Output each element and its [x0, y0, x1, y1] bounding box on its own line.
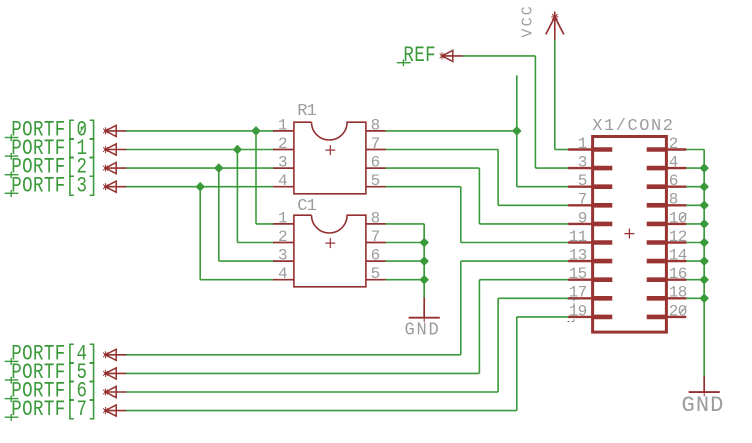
svg-text:7: 7 [371, 135, 381, 153]
svg-text:2: 2 [278, 228, 288, 246]
svg-text:GND: GND [405, 320, 441, 341]
svg-text:3: 3 [278, 154, 288, 172]
svg-text:8: 8 [371, 209, 381, 227]
svg-text:13: 13 [569, 247, 587, 265]
svg-text:REF: REF [403, 43, 436, 69]
svg-text:8: 8 [371, 116, 381, 134]
svg-text:4: 4 [278, 265, 288, 283]
svg-text:14: 14 [669, 247, 687, 265]
svg-text:9: 9 [578, 209, 587, 227]
svg-text:X1/CON2: X1/CON2 [592, 117, 674, 136]
svg-text:2: 2 [278, 135, 288, 153]
svg-text:5: 5 [371, 172, 381, 190]
svg-text:16: 16 [669, 265, 687, 283]
svg-text:1: 1 [278, 116, 288, 134]
svg-text:7: 7 [578, 191, 587, 209]
svg-text:7: 7 [371, 228, 381, 246]
svg-text:PORTF[3]: PORTF[3] [11, 173, 98, 199]
svg-text:PORTF[7]: PORTF[7] [11, 397, 98, 423]
svg-text:1: 1 [578, 135, 587, 153]
svg-text:3: 3 [578, 154, 587, 172]
svg-text:10: 10 [669, 209, 687, 227]
svg-text:2: 2 [669, 135, 678, 153]
svg-text:17: 17 [569, 284, 587, 302]
svg-text:11: 11 [569, 228, 587, 246]
svg-text:1: 1 [278, 209, 288, 227]
svg-text:C1: C1 [297, 197, 316, 216]
svg-text:3: 3 [278, 247, 288, 265]
svg-text:VCC: VCC [519, 4, 536, 38]
svg-text:8: 8 [669, 191, 678, 209]
svg-text:5: 5 [578, 172, 587, 190]
svg-text:GND: GND [682, 393, 725, 418]
svg-text:R1: R1 [297, 102, 316, 121]
svg-text:5: 5 [371, 265, 381, 283]
svg-text:20: 20 [669, 302, 687, 320]
svg-text:12: 12 [669, 228, 687, 246]
svg-text:6: 6 [371, 247, 381, 265]
svg-text:4: 4 [669, 154, 678, 172]
svg-text:15: 15 [569, 265, 587, 283]
svg-text:6: 6 [669, 172, 678, 190]
svg-text:4: 4 [278, 172, 288, 190]
svg-text:18: 18 [669, 284, 687, 302]
svg-text:19: 19 [569, 302, 587, 320]
svg-text:6: 6 [371, 154, 381, 172]
